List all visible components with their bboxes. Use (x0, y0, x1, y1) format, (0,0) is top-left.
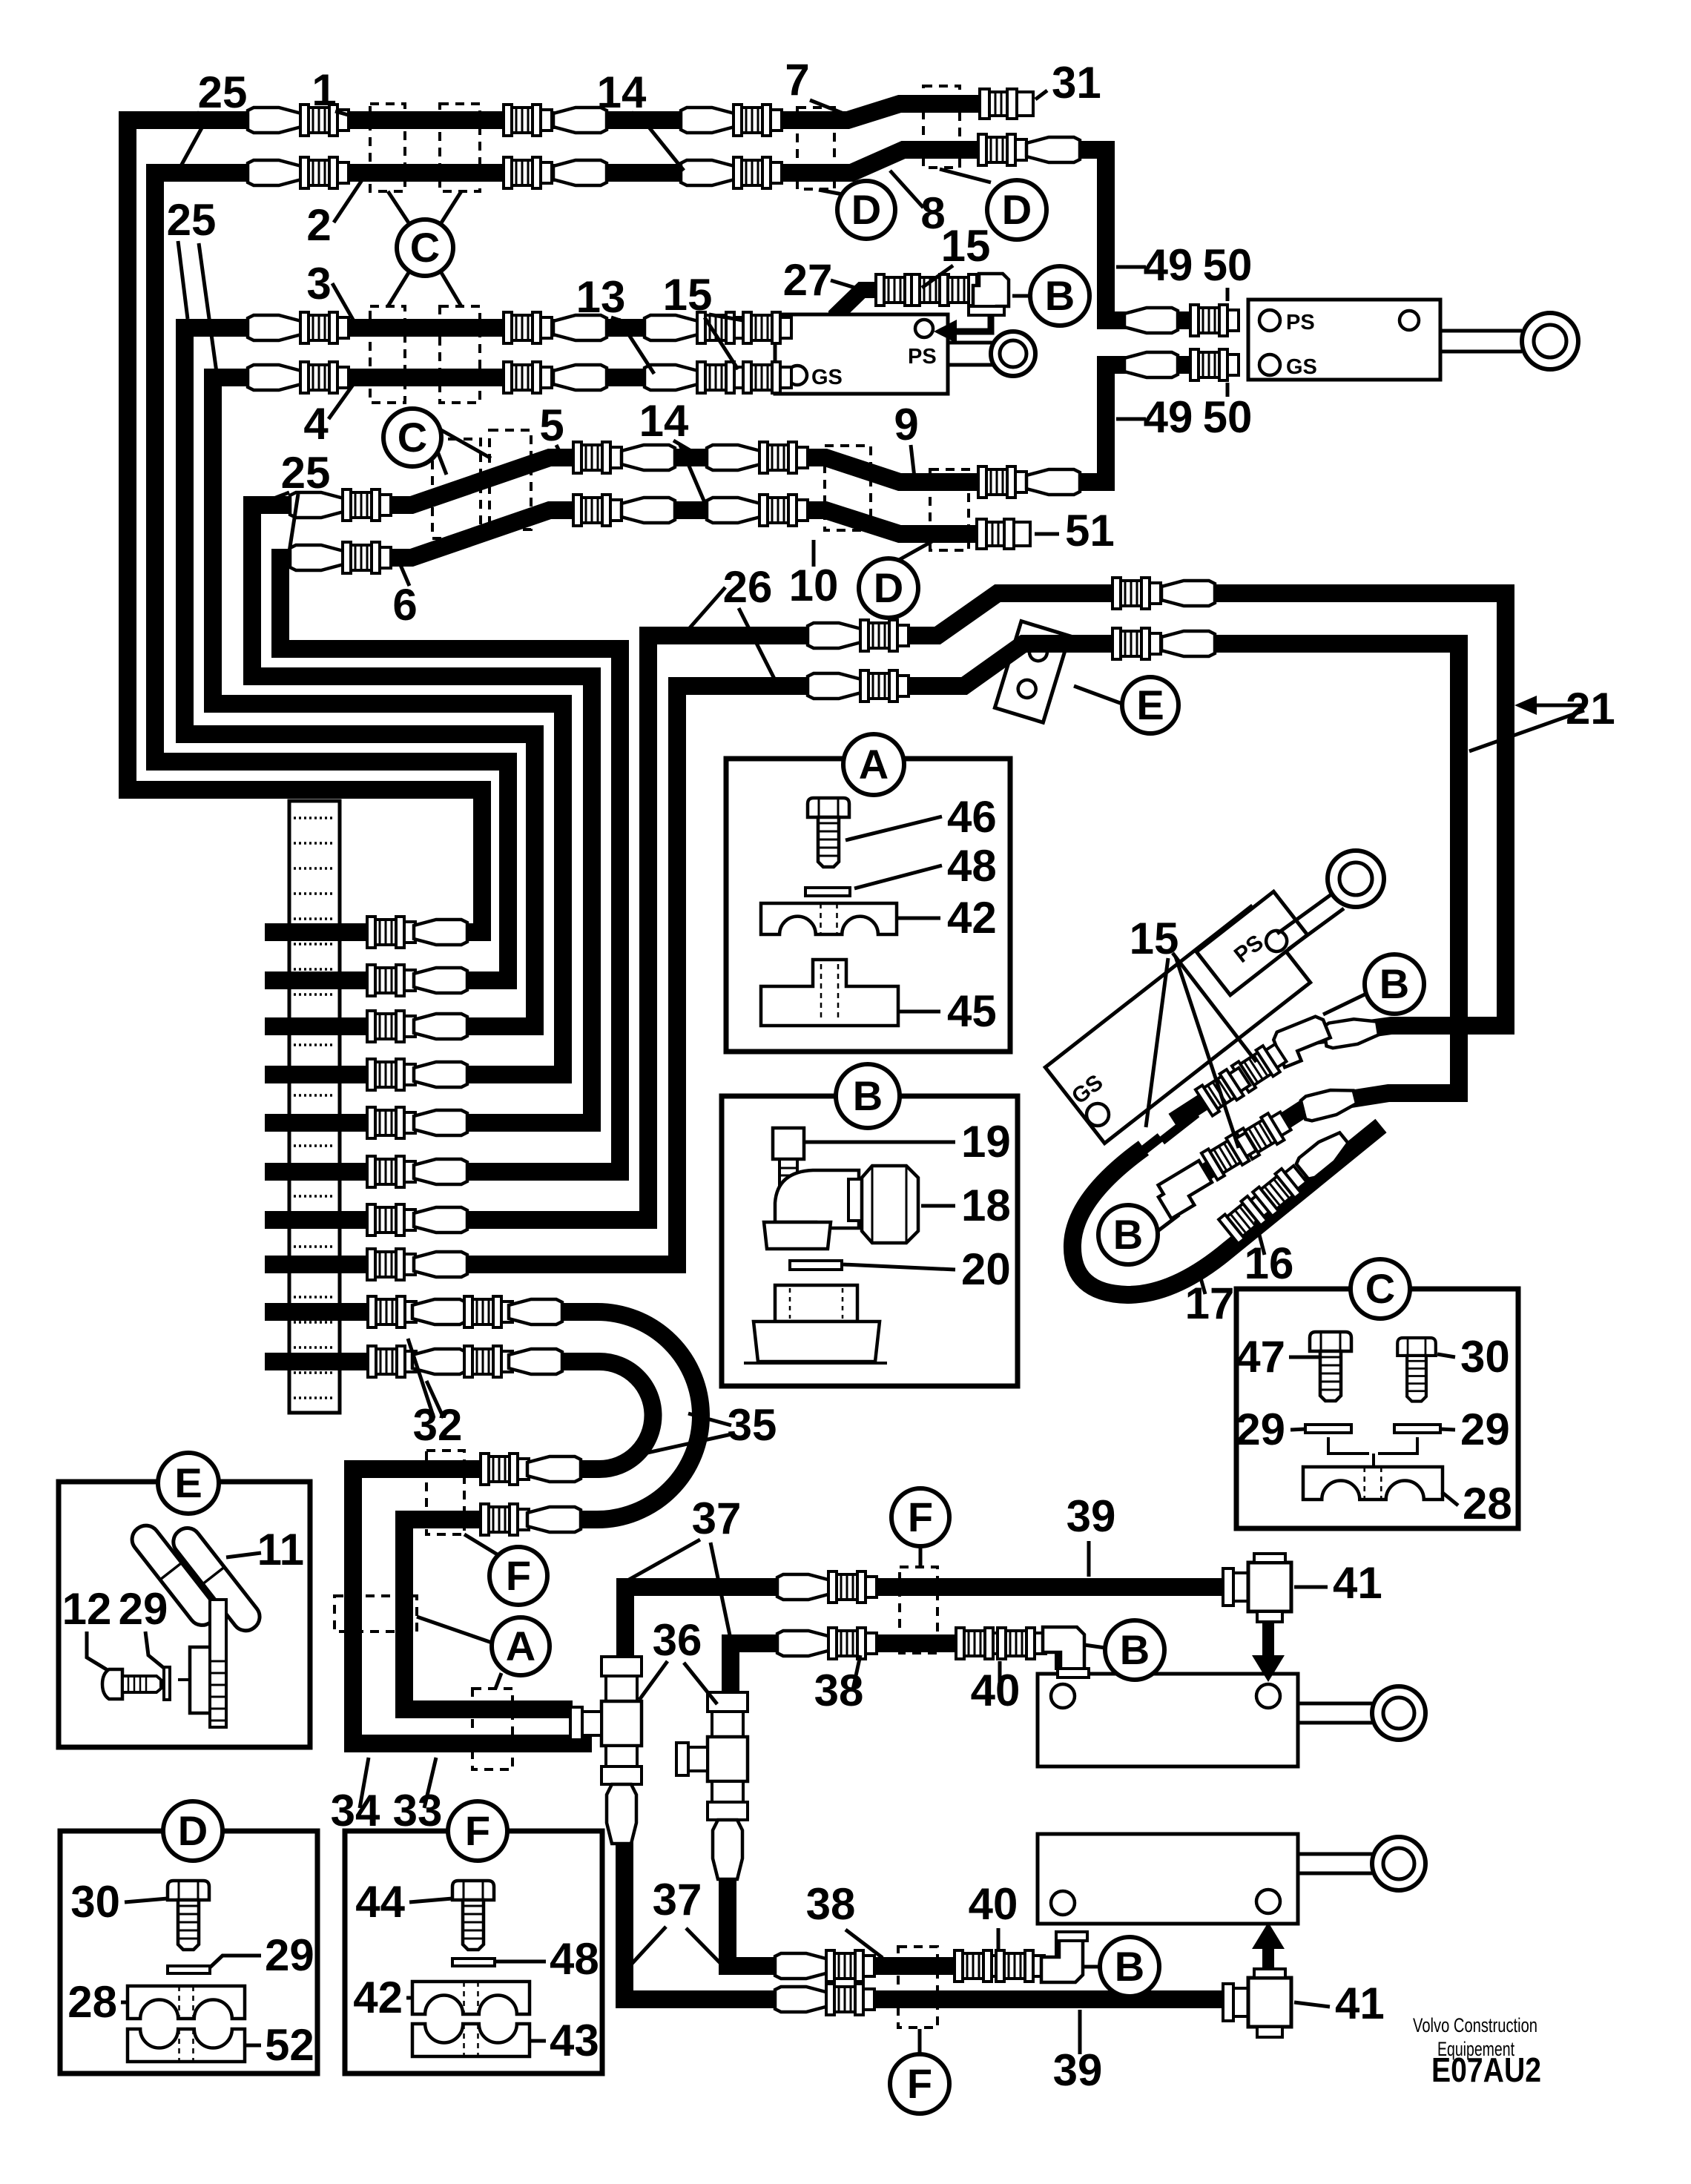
node B elbow l (1100, 1937, 1159, 1996)
dashed box (923, 86, 960, 168)
ldr13b (619, 319, 654, 374)
tee fitting 41 lower (1223, 1969, 1291, 2037)
nut 40 u (956, 1628, 1004, 1659)
cylinder (top right) (1248, 300, 1522, 380)
fitting 32 sleeve (412, 1299, 466, 1324)
ldr38t (853, 1655, 860, 1689)
svg-text:46: 46 (947, 792, 997, 842)
cylinder (middle right, rotated) (1045, 906, 1310, 1143)
ring eye at valve block (948, 343, 994, 365)
fitting 35 return sleeve (527, 1456, 581, 1482)
manifold fitting sleeve row 3 (414, 1014, 467, 1039)
wire hose 35 inner / 34 (265, 1362, 653, 1743)
wire hose 27 jumper (837, 290, 901, 332)
fitting 35 return nut (481, 1454, 529, 1485)
node B loop (1098, 1205, 1158, 1264)
ldr51 (1035, 532, 1059, 536)
fitting 15 nut b (912, 274, 960, 306)
ldr14b (641, 117, 684, 171)
wire hose 38 lower (728, 1828, 1064, 1966)
svg-text:F: F (506, 1552, 531, 1599)
svg-text:C: C (410, 224, 440, 271)
node D mid (859, 558, 918, 618)
sleeve 16 upper (1300, 1085, 1358, 1122)
svg-text:GS: GS (1286, 355, 1317, 379)
tee fitting 36 b (676, 1692, 748, 1879)
svg-text:48: 48 (947, 841, 997, 891)
ldr25f (289, 494, 298, 552)
leader 29 CL (1290, 1429, 1305, 1430)
ldr37c (630, 1927, 666, 1965)
node F mid (489, 1547, 547, 1605)
rod eye (bottom cyl 2) (1372, 1837, 1425, 1890)
ldr14a (632, 113, 664, 120)
detail box A (726, 759, 1010, 1052)
manifold fitting nut row 3 (367, 1011, 415, 1042)
leader 29 CR (1440, 1429, 1455, 1430)
leader 52 (245, 2044, 261, 2048)
svg-text:9: 9 (894, 400, 918, 449)
svg-text:F: F (908, 1494, 933, 1540)
ldr34 (360, 1758, 369, 1808)
ldr1 (335, 111, 361, 119)
fitting nut (504, 312, 552, 343)
C x1 (388, 191, 409, 224)
manifold fitting sleeve row 6 (414, 1159, 467, 1184)
fitting nut (759, 495, 808, 526)
fitting sleeve (1026, 137, 1080, 162)
fitting nut (743, 362, 791, 393)
ldr37b (711, 1543, 730, 1635)
manifold block (289, 801, 340, 1413)
svg-text:40: 40 (971, 1666, 1021, 1715)
svg-text:31: 31 (1052, 58, 1101, 108)
wire hose 26 upper / 21 outer / 15 to GS (265, 593, 1506, 1220)
fitting nut (860, 620, 909, 651)
end fitting 31 (980, 89, 1033, 119)
ldr49t (1116, 265, 1146, 269)
dashed box (825, 446, 871, 530)
fitting nut (978, 466, 1026, 498)
detail box D (60, 1831, 317, 2074)
lever 11 a (127, 1520, 222, 1631)
leader 28 C (1442, 1492, 1458, 1505)
node B top (1030, 266, 1090, 326)
fitting 32 nut b (464, 1346, 512, 1377)
manifold fitting nut row 5 (367, 1107, 415, 1138)
ldr50t (1226, 288, 1230, 301)
svg-text:21: 21 (1566, 684, 1615, 733)
fitting sleeve (1026, 469, 1080, 495)
node E mid (1122, 677, 1179, 733)
nut 17 (1219, 1190, 1276, 1244)
svg-text:51: 51 (1065, 506, 1115, 555)
svg-text:F: F (907, 2060, 932, 2107)
svg-text:15: 15 (1130, 914, 1179, 963)
manifold fitting sleeve row 7 (414, 1207, 467, 1233)
svg-text:39: 39 (1067, 1491, 1116, 1541)
fitting 15 nut c (940, 274, 988, 306)
svg-text:29: 29 (265, 1930, 314, 1980)
manifold fitting nut row 2 (367, 965, 415, 996)
B cyl leader (1323, 994, 1366, 1015)
dashed box (900, 1567, 937, 1653)
ldr4 (329, 383, 355, 419)
port mark 1 (1119, 1133, 1164, 1171)
fitting nut (828, 1628, 877, 1659)
fitting sleeve (707, 445, 760, 470)
ldr39b (1078, 2010, 1082, 2054)
wire hose 4 (213, 377, 816, 1075)
svg-text:D: D (851, 186, 881, 233)
fitting sleeve (1161, 631, 1215, 656)
D mid leader (899, 532, 949, 560)
fitting sleeve (248, 315, 301, 340)
bolt 30 (box C) (1397, 1338, 1436, 1402)
fitting sleeve (645, 365, 698, 390)
fitting nut (300, 362, 349, 393)
dashed box (930, 469, 969, 550)
svg-text:D: D (178, 1807, 208, 1854)
svg-text:15: 15 (941, 221, 991, 271)
leader 11 (226, 1553, 261, 1557)
ldr17 (1197, 1265, 1205, 1294)
fitting nut (860, 670, 909, 702)
wire hose 1 / 7 (128, 104, 1027, 932)
ldr26a (682, 587, 725, 636)
svg-text:11: 11 (257, 1525, 304, 1574)
ldr15e (1176, 957, 1239, 1148)
arrow to cyl2 (1262, 1943, 1274, 1974)
ldr16 (1256, 1221, 1265, 1255)
sleeve 49 upper (1124, 308, 1178, 333)
svg-text:50: 50 (1203, 240, 1253, 290)
node E (box) (158, 1453, 219, 1514)
F mid leader (464, 1534, 498, 1555)
fitting nut (504, 105, 552, 136)
svg-text:37: 37 (653, 1875, 702, 1924)
svg-text:25: 25 (281, 448, 331, 498)
svg-text:30: 30 (1460, 1332, 1510, 1382)
B elbow l leader (1083, 1965, 1100, 1969)
ldr39t (1087, 1541, 1091, 1577)
leader 18 (921, 1204, 955, 1208)
fitting 32 sleeve b (509, 1349, 562, 1374)
svg-text:49: 49 (1144, 240, 1193, 290)
B loop leader (1158, 1215, 1179, 1231)
elbow 27 (969, 274, 1009, 315)
leader 28 D (121, 2001, 128, 2005)
svg-text:38: 38 (806, 1879, 856, 1929)
svg-text:B: B (1045, 272, 1075, 319)
nut 8 (978, 134, 1026, 165)
ldr36b (684, 1663, 717, 1704)
fitting 32 nut b (464, 1296, 512, 1327)
svg-text:52: 52 (265, 2020, 314, 2070)
svg-text:43: 43 (550, 2016, 599, 2065)
manifold fitting sleeve row 2 (414, 968, 467, 993)
washer 48 (805, 888, 850, 896)
dashed box (440, 104, 480, 191)
svg-text:37: 37 (692, 1494, 742, 1543)
ldr40t (998, 1661, 1002, 1689)
port base (754, 1322, 880, 1362)
wire hose 37 upper / 39 (625, 1587, 1245, 1657)
ldr25c (178, 241, 188, 319)
wire hose 2 / 8 / 49 (155, 150, 1201, 980)
ldr25d (199, 243, 217, 372)
nut 16b (1201, 1129, 1259, 1180)
nut 40 l (955, 1950, 1003, 1982)
svg-text:3: 3 (306, 259, 331, 309)
fitting sleeve (808, 673, 861, 699)
svg-text:B: B (1120, 1626, 1150, 1673)
node D top 1 (837, 181, 895, 239)
ldr7 (810, 100, 857, 119)
leader 43 (530, 2039, 546, 2043)
clamp 42 (box A) (761, 903, 897, 934)
node B cyl (1365, 954, 1424, 1014)
nut 50 lower (1190, 349, 1239, 380)
fitting sleeve (808, 623, 861, 648)
washer 29 L (1305, 1425, 1351, 1433)
svg-text:19: 19 (961, 1117, 1011, 1167)
ldr15d (1173, 953, 1256, 1062)
PS valve box on cylinder (1196, 891, 1308, 995)
washer 29 R (1394, 1425, 1440, 1433)
svg-text:8: 8 (920, 188, 945, 238)
C x3 (388, 271, 409, 306)
arrow 21 (1514, 696, 1537, 715)
svg-text:B: B (1113, 1211, 1143, 1258)
node B elbow u (1105, 1620, 1164, 1680)
detail box C (1236, 1289, 1518, 1528)
port mark 2 (1159, 1110, 1200, 1144)
nut 15 on GS line (1232, 1040, 1289, 1092)
nut 26 lower (1112, 628, 1161, 659)
svg-text:29: 29 (119, 1584, 168, 1634)
manifold fitting sleeve row 8 (414, 1252, 467, 1277)
fitting nut (343, 542, 391, 573)
svg-text:A: A (859, 741, 889, 788)
svg-text:15: 15 (663, 270, 713, 320)
fitting sleeve (248, 160, 301, 185)
sleeve 49 lower (1124, 352, 1178, 377)
elbow 40 lower (1041, 1932, 1087, 1982)
C x2 (441, 191, 461, 224)
svg-text:10: 10 (789, 561, 839, 610)
svg-text:50: 50 (1203, 392, 1253, 442)
svg-text:28: 28 (67, 1977, 117, 2027)
fitting nut (504, 362, 552, 393)
svg-text:F: F (465, 1807, 490, 1854)
fitting sleeve (645, 315, 698, 340)
ldr25b (174, 117, 208, 178)
node D (box) (163, 1801, 222, 1861)
manifold fitting nut row 1 (367, 917, 415, 948)
leader 20 (843, 1264, 955, 1270)
svg-text:C: C (398, 414, 427, 461)
port stack (775, 1285, 857, 1322)
fitting 32 nut (368, 1296, 416, 1327)
ldr9 (911, 445, 914, 478)
svg-text:D: D (1002, 186, 1032, 233)
leader 19 (805, 1141, 955, 1144)
svg-text:42: 42 (353, 1973, 403, 2022)
svg-text:C: C (1365, 1265, 1395, 1312)
B elbow u leader (1084, 1645, 1105, 1648)
node C top (397, 220, 453, 276)
ldr6 (400, 565, 409, 586)
ldr32b (426, 1381, 444, 1418)
leader 48 (854, 865, 942, 888)
arrow to cyl1 (1262, 1623, 1274, 1661)
svg-text:D: D (874, 564, 903, 611)
tee fitting 41 upper (1223, 1554, 1291, 1622)
ldr14d (679, 443, 706, 506)
svg-text:A: A (506, 1623, 535, 1669)
fitting sleeve (553, 315, 607, 340)
ldr37d (686, 1928, 721, 1964)
fitting nut (828, 1571, 877, 1603)
clamp 28 (box D) (128, 1986, 245, 2019)
ldr38b (845, 1930, 883, 1958)
svg-text:45: 45 (947, 986, 997, 1036)
ldr2 (334, 178, 363, 222)
wire hose 6 / 10 (265, 510, 1023, 1172)
fitting nut (343, 489, 391, 521)
washer 20 (790, 1261, 842, 1270)
lever strip (210, 1600, 226, 1727)
wire hose 35 outer / 33 (265, 1312, 701, 1709)
node F right (891, 1488, 949, 1546)
A mid leader1 (417, 1617, 492, 1643)
svg-text:B: B (853, 1072, 883, 1119)
wire hose 37 lower / 38 (731, 1643, 1064, 1692)
svg-text:14: 14 (597, 67, 647, 117)
svg-text:E07AU2: E07AU2 (1431, 2051, 1541, 2089)
fitting sleeve (290, 492, 343, 518)
fitting sleeve (681, 160, 734, 185)
svg-text:47: 47 (1236, 1332, 1285, 1382)
fitting nut (743, 312, 791, 343)
ldr10 (812, 540, 816, 567)
svg-text:41: 41 (1335, 1979, 1385, 2028)
dashed box (797, 108, 834, 189)
fitting sleeve (290, 545, 343, 570)
node C (box) (1351, 1259, 1410, 1319)
svg-text:14: 14 (639, 396, 689, 446)
svg-text:26: 26 (723, 562, 773, 612)
washer 29 D (168, 1966, 210, 1973)
svg-text:PS: PS (1286, 311, 1315, 334)
svg-text:12: 12 (62, 1584, 112, 1634)
ldr13a (611, 317, 638, 326)
ldr36a (639, 1661, 667, 1700)
wire hose 26 lower / 21 inner / 16 (265, 644, 1459, 1264)
svg-text:1: 1 (311, 65, 336, 115)
cylinder (bottom 2) (1038, 1834, 1372, 1924)
ldr49b (1116, 418, 1146, 421)
clamp 28 (box C) (1303, 1467, 1443, 1500)
svg-text:25: 25 (198, 67, 248, 117)
node A (box) (843, 734, 904, 795)
leader 42 (897, 917, 940, 920)
svg-text:35: 35 (728, 1400, 777, 1450)
dashed box (440, 306, 480, 403)
connector lines (1328, 1437, 1417, 1467)
fitting sleeve (553, 365, 607, 390)
bolt 44 (452, 1881, 494, 1950)
sleeve 17 (1294, 1128, 1351, 1181)
leader 30 D (125, 1898, 168, 1902)
fitting sleeve (775, 1987, 828, 2012)
fitting nut (826, 1950, 874, 1982)
valve block (GS/PS ports) (775, 314, 948, 394)
svg-text:4: 4 (303, 399, 329, 449)
svg-text:44: 44 (355, 1877, 405, 1927)
rod eye (bottom cyl 1) (1372, 1686, 1425, 1740)
ldr32a (408, 1339, 434, 1418)
leader 47 (1289, 1356, 1320, 1359)
ldr25e (263, 492, 289, 503)
bolt 46 (808, 798, 849, 867)
svg-text:20: 20 (961, 1244, 1011, 1294)
svg-text:18: 18 (961, 1181, 1011, 1230)
ldr15f (1146, 958, 1168, 1127)
banjo eye at valve block (991, 331, 1035, 376)
fitting sleeve (553, 160, 607, 185)
leader 30 C (1437, 1354, 1455, 1357)
manifold fitting nut row 8 (367, 1249, 415, 1280)
ldr5 (556, 445, 561, 454)
F right leader (919, 1546, 923, 1567)
nut 40 l2 (996, 1950, 1044, 1982)
ldr21a (1537, 704, 1584, 707)
dashed box (426, 1451, 464, 1534)
ldr50b (1226, 383, 1230, 397)
elbow B (lower) (1153, 1161, 1217, 1218)
bolt 30 (box D) (168, 1881, 209, 1950)
fitting 35 return sleeve (527, 1507, 581, 1532)
detail box B (722, 1096, 1018, 1386)
node F (box) (448, 1801, 507, 1861)
clamp 52 (box D) (128, 2029, 245, 2062)
elbow 40 upper (1043, 1627, 1089, 1677)
manifold fitting nut row 7 (367, 1204, 415, 1235)
nut 16 (1236, 1108, 1293, 1159)
leader 48 F (495, 1960, 546, 1964)
dashed box (370, 104, 405, 191)
svg-text:E: E (1136, 682, 1164, 728)
svg-text:27: 27 (783, 255, 833, 305)
ldr37a (629, 1540, 700, 1580)
fitting nut (300, 157, 349, 188)
nut 17b (1253, 1162, 1310, 1217)
bracket plate E (995, 621, 1069, 723)
F bottom leader (918, 2029, 922, 2054)
fitting sleeve (622, 445, 675, 470)
D2 leader (940, 169, 991, 182)
ldr33 (424, 1758, 436, 1808)
washer 48 F (452, 1959, 495, 1966)
fitting nut (734, 105, 782, 136)
leader 29 D (210, 1956, 261, 1967)
fitting nut (300, 312, 349, 343)
C mid l2 (441, 430, 491, 458)
svg-text:28: 28 (1463, 1479, 1512, 1528)
fitting sleeve (553, 108, 607, 133)
